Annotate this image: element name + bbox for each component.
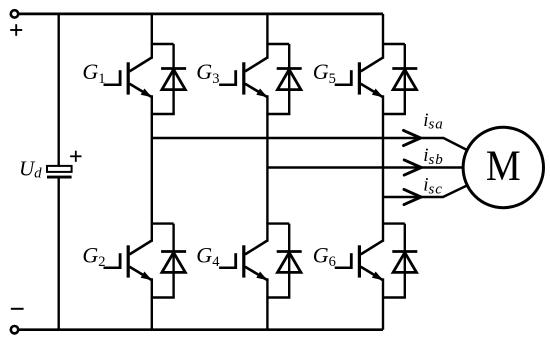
wire: top DC+ rail — [19, 13, 383, 16]
wire: phase b output line — [267, 166, 464, 168]
wire: leg 1 collector drop from DC+ rail — [151, 14, 153, 59]
wire: upper bracket top (collector to diode cathode), leg 2 — [266, 43, 289, 45]
transistor G3 (IGBT) — [219, 58, 268, 98]
wire: upper bracket bottom (emitter to diode anode), leg 3 — [382, 113, 406, 115]
wire: leg 1 emitter drop to DC- rail — [151, 278, 153, 329]
capacitor Ud (DC-link) — [47, 166, 72, 179]
diode D3 (freewheel across G3) — [277, 69, 302, 90]
diode D1 (freewheel across G1) — [161, 69, 186, 90]
wire: lower bracket bottom, leg 1 — [151, 296, 175, 298]
wire: upper bracket top (collector to diode cathode), leg 3 — [382, 43, 405, 45]
wire: diode branch vertical upper, leg 3 — [404, 44, 406, 115]
arrow: phase b current direction — [404, 160, 421, 175]
wire: leg 2 midpoint vertical (phase node) — [266, 95, 268, 241]
wire: diode branch vertical upper, leg 1 — [172, 44, 174, 115]
wire: leg 1 midpoint vertical (phase node) — [151, 95, 153, 241]
wire: upper bracket bottom (emitter to diode anode), leg 2 — [266, 113, 290, 115]
transistor G1 (IGBT) — [104, 58, 153, 98]
svg-text:M: M — [486, 141, 521, 189]
transistor G5 (IGBT) — [335, 58, 384, 98]
arrow: phase a current direction — [404, 130, 421, 145]
label - (negative terminal) — [11, 308, 24, 310]
wire: lower bracket top, leg 3 — [382, 222, 405, 224]
diode D5 (freewheel across G5) — [392, 69, 417, 90]
wire: lower bracket top, leg 1 — [151, 222, 174, 224]
wire: diode branch vertical lower, leg 1 — [172, 224, 174, 299]
transistor G4 (IGBT) — [219, 241, 268, 281]
transistor G6 (IGBT) — [335, 241, 384, 281]
wire: leg 3 emitter drop to DC- rail — [382, 278, 384, 329]
wire: leg 2 emitter drop to DC- rail — [266, 278, 268, 329]
wire: diode branch vertical upper, leg 2 — [288, 44, 290, 115]
diode D4 (freewheel across G4) — [277, 252, 302, 273]
wire: upper bracket top (collector to diode cathode), leg 1 — [151, 43, 174, 45]
label + (capacitor polarity) — [70, 151, 81, 162]
wire: lower bracket bottom, leg 2 — [266, 296, 290, 298]
wire: leg 3 midpoint vertical (phase node) — [382, 95, 384, 241]
wire: lower bracket top, leg 2 — [266, 222, 289, 224]
wire: bottom DC- rail — [19, 328, 383, 331]
wire: phase a output line — [152, 138, 468, 151]
wire: diode branch vertical lower, leg 2 — [288, 224, 290, 299]
wire: capacitor branch upper — [58, 14, 60, 167]
motor M (three-phase machine) — [463, 127, 543, 207]
label + (positive terminal) — [10, 24, 22, 36]
wire: phase c output line — [383, 185, 468, 197]
wire: lower bracket bottom, leg 3 — [382, 296, 406, 298]
transistor G2 (IGBT) — [104, 241, 153, 281]
wire: upper bracket bottom (emitter to diode anode), leg 1 — [151, 113, 175, 115]
terminal T- (DC negative input) — [11, 326, 18, 333]
diode D2 (freewheel across G2) — [161, 252, 186, 273]
wire: leg 3 collector drop from DC+ rail — [382, 14, 384, 59]
wire: diode branch vertical lower, leg 3 — [404, 224, 406, 299]
wire: leg 2 collector drop from DC+ rail — [266, 14, 268, 59]
arrow: phase c current direction — [404, 189, 421, 204]
diode D6 (freewheel across G6) — [392, 252, 417, 273]
terminal T+ (DC positive input) — [11, 10, 18, 17]
wire: capacitor branch lower — [58, 178, 60, 330]
